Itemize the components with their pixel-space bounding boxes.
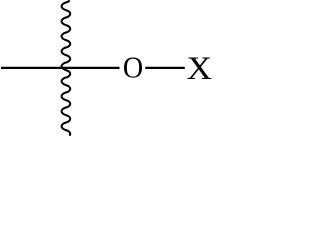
- svg-text:X: X: [187, 50, 212, 86]
- wavy bond (vertical squiggle): [62, 1, 71, 135]
- wire: horizontal bond left: [1, 67, 120, 69]
- wire: bond O to X: [145, 67, 185, 69]
- svg-text:O: O: [123, 51, 143, 85]
